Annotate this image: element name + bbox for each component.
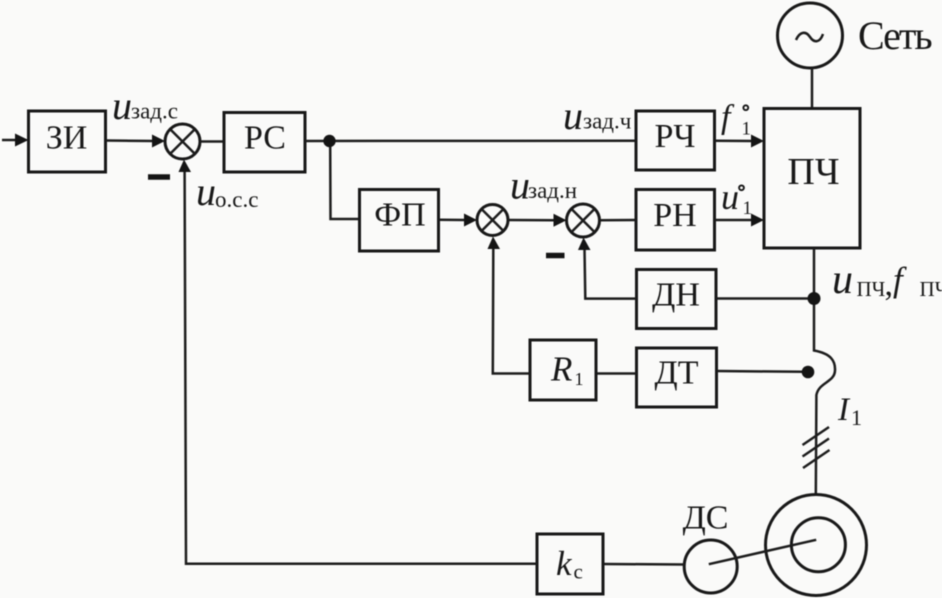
label u_зад.с bbox=[112, 83, 178, 128]
wire Сеть to ПЧ bbox=[811, 68, 814, 109]
svg-text:k: k bbox=[556, 544, 573, 583]
block R1 bbox=[530, 340, 596, 400]
block k_c bbox=[537, 534, 603, 594]
wire ДТ to main line tap bbox=[717, 370, 803, 373]
svg-text:зад.н: зад.н bbox=[528, 178, 577, 203]
label u1* bbox=[721, 177, 752, 219]
block ЗИ bbox=[29, 111, 106, 172]
svg-text:u: u bbox=[510, 163, 530, 208]
wire ФП to summing junction 2 bbox=[439, 214, 478, 227]
svg-text:Сеть: Сеть bbox=[858, 13, 932, 58]
svg-text:ЗИ: ЗИ bbox=[46, 120, 88, 157]
svg-text:f: f bbox=[721, 99, 735, 136]
wire РС to РЧ bbox=[305, 139, 636, 142]
motor (double circle) bbox=[766, 495, 867, 596]
svg-text:с: с bbox=[574, 560, 583, 584]
svg-text:ПЧ: ПЧ bbox=[857, 277, 886, 301]
minus sign at summing junction 1 bbox=[148, 174, 170, 180]
wire ДН to main line node bbox=[716, 297, 808, 300]
wire РН to ПЧ bbox=[715, 214, 765, 227]
summing junction 3 bbox=[567, 204, 600, 237]
svg-text:I: I bbox=[837, 392, 851, 428]
shaft ДС to motor bbox=[709, 540, 816, 564]
summing junction 1 bbox=[165, 124, 200, 159]
svg-text:зад.ч: зад.ч bbox=[583, 109, 632, 134]
label u_о.с.с bbox=[196, 169, 258, 214]
block ДТ bbox=[637, 348, 717, 407]
svg-text:1: 1 bbox=[851, 405, 862, 430]
wire node to ФП bbox=[330, 147, 359, 219]
svg-text:ДС: ДС bbox=[683, 500, 729, 537]
svg-text:1: 1 bbox=[742, 119, 752, 140]
label f1* bbox=[721, 99, 751, 140]
summing junction 2 bbox=[477, 205, 508, 236]
svg-text:1: 1 bbox=[575, 369, 584, 389]
block ФП bbox=[360, 190, 439, 252]
svg-text:u: u bbox=[832, 257, 853, 303]
block ДН bbox=[637, 270, 717, 329]
wire ДС to k_c bbox=[603, 563, 685, 566]
label u_зад.ч bbox=[563, 93, 632, 138]
wire R1 to summing junction 2 bbox=[488, 237, 531, 374]
wire ДТ to R1 bbox=[597, 372, 637, 375]
wire summing junction 3 to РН bbox=[600, 219, 637, 222]
svg-text:1: 1 bbox=[743, 198, 753, 219]
block РЧ bbox=[636, 111, 715, 170]
wire k_c to summing junction 1 feedback bbox=[179, 160, 538, 564]
minus sign at summing junction 3 bbox=[546, 253, 565, 259]
wire ДН to summing junction 3 bbox=[578, 238, 637, 299]
block РС bbox=[224, 113, 305, 173]
label u_ПЧ, f_ПЧ bbox=[832, 257, 942, 303]
svg-text:,: , bbox=[885, 266, 894, 303]
svg-text:ПЧ: ПЧ bbox=[920, 277, 942, 301]
svg-text:РН: РН bbox=[653, 197, 696, 234]
wire input arrow into ЗИ bbox=[2, 134, 29, 147]
label I1 bbox=[837, 392, 862, 430]
svg-text:зад.с: зад.с bbox=[131, 99, 178, 124]
svg-text:f: f bbox=[893, 260, 907, 299]
svg-text:u: u bbox=[196, 169, 216, 214]
wire ПЧ down main line with current-transducer bump bbox=[814, 248, 835, 495]
svg-text:ДН: ДН bbox=[652, 277, 700, 314]
node after РС bbox=[323, 135, 335, 147]
current marks I1 bbox=[803, 427, 830, 468]
svg-text:ПЧ: ПЧ bbox=[787, 151, 839, 193]
wire ЗИ to summing junction 1 bbox=[106, 135, 166, 148]
node ДТ tap bbox=[802, 366, 815, 379]
svg-text:РЧ: РЧ bbox=[654, 118, 695, 155]
tachogenerator ДС bbox=[684, 540, 737, 593]
block ПЧ bbox=[764, 109, 860, 249]
svg-text:u: u bbox=[563, 93, 583, 138]
svg-text:u: u bbox=[112, 83, 132, 128]
wire summing junction 2 to summing junction 3 bbox=[508, 214, 567, 227]
label u_зад.н bbox=[510, 163, 577, 208]
svg-text:R: R bbox=[550, 350, 572, 389]
svg-text:РС: РС bbox=[244, 120, 286, 157]
svg-text:u: u bbox=[721, 177, 739, 217]
wire summing junction 1 to РС bbox=[201, 140, 225, 143]
svg-text:о.с.с: о.с.с bbox=[215, 187, 258, 212]
AC source circle Сеть bbox=[778, 3, 843, 68]
block РН bbox=[636, 190, 715, 251]
node u_ПЧ on main line bbox=[808, 292, 821, 305]
svg-text:ДТ: ДТ bbox=[655, 355, 699, 392]
svg-text:ФП: ФП bbox=[374, 197, 425, 234]
wire РЧ to ПЧ bbox=[715, 135, 765, 148]
